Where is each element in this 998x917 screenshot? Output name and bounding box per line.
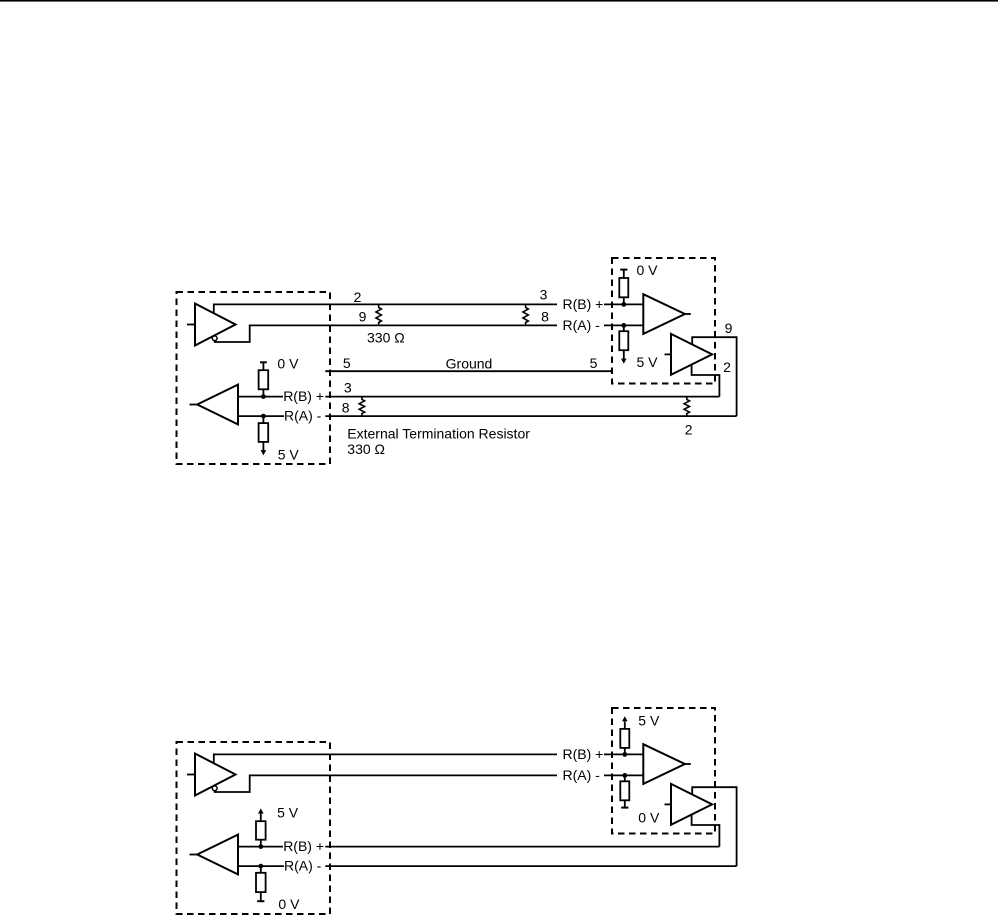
svg-text:5 V: 5 V — [278, 446, 300, 462]
wire R(B)+ into U4 — [604, 753, 643, 755]
wire: U2B output pin 9 to R(A) return line — [692, 337, 736, 416]
svg-text:R(B) +: R(B) + — [563, 746, 604, 762]
svg-text:R(B) +: R(B) + — [563, 296, 604, 312]
svg-text:8: 8 — [342, 399, 350, 415]
svg-text:2: 2 — [685, 422, 693, 438]
svg-text:Ground: Ground — [446, 355, 493, 371]
inverting bubble U3A — [212, 786, 217, 791]
junction dot R(B)+ (bottom left box) — [258, 844, 263, 849]
wire: R(A) return line (pin 9 to pin 8) — [325, 415, 736, 417]
svg-text:R(A) -: R(A) - — [563, 317, 601, 333]
wire R(B)+ into U2 — [604, 303, 643, 305]
junction dot R(A)- (bottom right box) — [622, 773, 627, 778]
wire: U1A noninverting output to line pin 2 (R(B) upper line) — [214, 304, 557, 313]
svg-text:330 Ω: 330 Ω — [367, 330, 405, 346]
wire: U1A inverting output to line pin 9 (R(A) upper line) — [215, 325, 557, 342]
resistor RT1 330 ohm (left termination, upper pair) — [376, 304, 381, 325]
svg-text:3: 3 — [540, 287, 548, 303]
svg-text:R(B) +: R(B) + — [283, 838, 324, 854]
device box U2 (right transceiver, top diagram) — [612, 258, 715, 384]
junction dot R(B)+ (right box) — [621, 302, 626, 307]
5V terminal (down arrow, right box) — [621, 359, 627, 364]
wire R(A)- into U1B — [238, 415, 284, 417]
0V terminal (T-bar, bottom right box) — [621, 807, 628, 809]
inverting bubble U1A — [212, 336, 217, 341]
resistor R8 (pull to 0V, bottom left box) — [256, 866, 266, 901]
svg-text:2: 2 — [723, 359, 731, 375]
svg-text:R(A) -: R(A) - — [563, 767, 601, 783]
device box U4 (right transceiver, bottom diagram) — [612, 708, 715, 834]
resistor RT4 (right termination, lower pair) — [684, 397, 689, 416]
0V terminal (T-bar, right box) — [620, 269, 627, 271]
svg-text:5 V: 5 V — [637, 354, 659, 370]
driver U3A — [187, 754, 236, 796]
resistor R6 (pull to 5V, bottom right box) — [620, 722, 629, 755]
wire: R(B) return line (pin 2 to pin 3) — [325, 396, 719, 398]
0V terminal (T-bar, bottom left box) — [257, 900, 264, 902]
driver U4B — [665, 784, 713, 825]
svg-text:2: 2 — [354, 289, 362, 305]
svg-text:R(A) -: R(A) - — [284, 408, 322, 424]
wire R(B)+ into U3B — [238, 846, 283, 848]
svg-text:9: 9 — [359, 309, 367, 325]
wire: U3A inverting output R(A) line — [215, 775, 557, 792]
resistor R7 (pull to 0V, bottom right box) — [620, 775, 629, 807]
resistor R1 (pull to 0V, left box) — [259, 362, 269, 396]
svg-text:0 V: 0 V — [278, 896, 300, 912]
driver U1A — [187, 304, 236, 346]
wire R(A)- into U4 — [604, 774, 643, 776]
receiver U2A — [643, 294, 691, 334]
resistor R4 (pull to 5V, left box) — [259, 416, 269, 451]
device box U3 (left transceiver, bottom diagram) — [177, 742, 331, 914]
svg-text:5 V: 5 V — [638, 713, 660, 729]
svg-text:R(B) +: R(B) + — [283, 388, 324, 404]
resistor R5 (pull to 5V, bottom left box) — [256, 813, 266, 846]
svg-text:0 V: 0 V — [277, 355, 299, 371]
svg-text:5: 5 — [590, 355, 598, 371]
junction dot R(A)- (bottom left box) — [258, 864, 263, 869]
svg-text:3: 3 — [344, 380, 352, 396]
resistor RT3 (left termination, lower pair) — [359, 397, 364, 416]
junction dot R(A)- (right box) — [621, 323, 626, 328]
top rule line — [0, 0, 998, 2]
ground wire (pin 5 to pin 5) — [325, 370, 613, 372]
5V terminal (up arrow, bottom right box) — [622, 716, 628, 721]
resistor R2 (pull-down to 0V, right box) — [619, 270, 628, 305]
wire: U2B output pin 2 to R(B) return line — [692, 365, 720, 397]
driver U2B — [665, 334, 713, 375]
wire R(B)+ into U1B — [238, 396, 283, 398]
svg-text:5: 5 — [343, 355, 351, 371]
wire R(A)- into U2 — [604, 324, 643, 326]
junction dot R(B)+ (left box) — [261, 394, 266, 399]
svg-text:0 V: 0 V — [637, 262, 659, 278]
wire: U3A noninverting output R(B) line — [214, 754, 557, 763]
svg-text:330 Ω: 330 Ω — [347, 441, 385, 457]
svg-text:External Termination Resistor: External Termination Resistor — [347, 425, 530, 441]
svg-text:8: 8 — [541, 309, 549, 325]
resistor R3 (pull to 5V, right box) — [619, 325, 628, 359]
device box U1 (left transceiver, top diagram) — [177, 292, 331, 464]
receiver U4A — [643, 744, 691, 784]
wire: R(A) return line (bottom diagram) — [325, 865, 736, 867]
resistor RT2 (right termination, upper pair) — [523, 304, 528, 325]
receiver U1B (left box) — [190, 385, 239, 425]
junction dot R(A)- (left box) — [261, 414, 266, 419]
wire: U4B output to R(A) return line — [692, 787, 736, 866]
svg-text:0 V: 0 V — [638, 809, 660, 825]
junction dot R(B)+ (bottom right box) — [622, 752, 627, 757]
0V terminal (T-bar, left box) — [260, 361, 267, 363]
5V terminal (down arrow, left box) — [261, 450, 267, 455]
receiver U3B (bottom left box) — [190, 835, 239, 875]
wire: R(B) return line (bottom diagram) — [325, 846, 719, 848]
svg-text:9: 9 — [725, 320, 733, 336]
wire R(A)- into U3B — [238, 865, 284, 867]
svg-text:5 V: 5 V — [277, 805, 299, 821]
wire: U4B output to R(B) return line — [692, 815, 720, 847]
5V terminal (up arrow, bottom left box) — [258, 808, 264, 813]
svg-text:R(A) -: R(A) - — [284, 858, 322, 874]
